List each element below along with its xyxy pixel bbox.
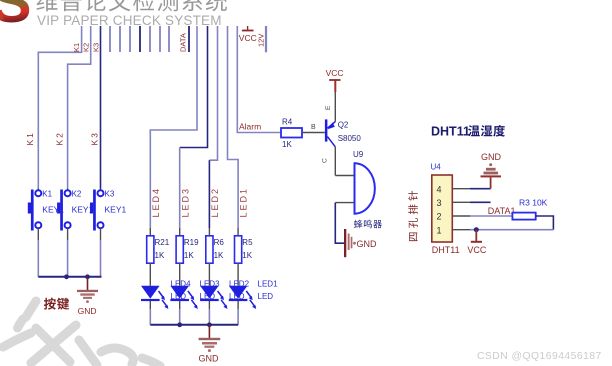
svg-text:1K: 1K [155, 251, 165, 260]
wire Alarm net to R4 [237, 26, 281, 133]
svg-text:K1: K1 [25, 131, 35, 145]
wire net K2 (stub + jog to button OK2) [68, 26, 91, 189]
svg-text:K3: K3 [105, 190, 115, 199]
svg-text:1K: 1K [282, 140, 292, 149]
svg-text:B: B [311, 124, 316, 131]
wire to R19 (LED3 net) [180, 26, 208, 148]
svg-text:GND: GND [78, 306, 97, 316]
button OK1 [28, 189, 65, 277]
svg-text:GND: GND [199, 354, 220, 364]
svg-text:GND: GND [481, 152, 502, 162]
svg-text:DATA1: DATA1 [488, 206, 516, 216]
button OK2 [57, 189, 94, 277]
resistor R21 [147, 228, 170, 286]
ground (LED bus) [199, 325, 221, 364]
wire to R5 (LED1 net) [228, 26, 239, 228]
wire net K3 (straight to button OK3) [100, 26, 102, 189]
junction (VCC tap / pin1) [474, 227, 479, 232]
LED D4 labels [171, 280, 192, 301]
svg-text:1K: 1K [184, 251, 194, 260]
svg-text:DHT11: DHT11 [431, 125, 470, 139]
svg-text:GND: GND [357, 239, 378, 249]
svg-text:1K: 1K [214, 251, 224, 260]
svg-text:2: 2 [437, 212, 442, 222]
LED D1 labels [258, 280, 279, 301]
svg-text:K2: K2 [82, 43, 91, 52]
LED D4 [141, 286, 168, 325]
svg-text:Alarm: Alarm [239, 122, 261, 132]
svg-text:E: E [325, 105, 332, 110]
label 按键 [44, 298, 69, 310]
wire R3 to pin1 net [536, 216, 554, 230]
svg-text:K2: K2 [72, 190, 82, 199]
wire LED bottom bus [150, 324, 238, 326]
transistor Q2 [325, 92, 361, 176]
LED D3 [170, 286, 197, 325]
svg-text:K3: K3 [92, 43, 101, 52]
buzzer U9 [335, 150, 382, 228]
svg-text:12V: 12V [257, 34, 266, 47]
pin 3 wire [452, 201, 470, 203]
wire to R21 (LED4 net) [150, 26, 197, 228]
svg-text:LED4: LED4 [151, 187, 161, 218]
svg-text:LED3: LED3 [180, 187, 190, 218]
ground (buzzer, rotated) [344, 229, 377, 257]
svg-text:3: 3 [437, 198, 442, 208]
svg-text:LED: LED [258, 292, 274, 301]
svg-text:LED1: LED1 [258, 280, 279, 289]
svg-text:VCC: VCC [467, 245, 487, 255]
svg-text:1K: 1K [242, 251, 252, 260]
svg-text:4: 4 [437, 184, 442, 194]
resistor R5 [235, 228, 254, 286]
svg-text:U9: U9 [353, 150, 364, 159]
power VCC (DHT11) [467, 230, 487, 255]
svg-text:KEY1: KEY1 [105, 205, 127, 215]
ground (DHT11, inverted) [481, 152, 502, 189]
wire buzzer to ground [335, 203, 344, 244]
svg-text:K1: K1 [42, 190, 52, 199]
junction (button OK2 / bus) [64, 274, 69, 279]
svg-text:U4: U4 [431, 163, 442, 172]
power VCC (transistor) [326, 68, 344, 92]
stub 12V [265, 26, 267, 52]
svg-text:K3: K3 [90, 131, 100, 145]
unused top stub (dark) [139, 26, 141, 52]
watermark chinese title [36, 0, 227, 11]
svg-text:VCC: VCC [239, 33, 257, 43]
button OK3 [90, 189, 127, 277]
svg-text:DATA: DATA [179, 33, 188, 52]
wire net K1 (stub + jog to button OK1) [38, 26, 81, 189]
LED D2 labels [229, 280, 250, 301]
svg-text:R4: R4 [282, 118, 293, 127]
watermark bottom-left strokes [3, 301, 160, 366]
svg-text:Q2: Q2 [338, 121, 349, 130]
svg-text:DHT11: DHT11 [432, 245, 460, 255]
LED D3 labels [200, 280, 221, 301]
svg-text:R3 10K: R3 10K [519, 198, 548, 208]
pin 2 wire (DATA) [452, 215, 470, 217]
resistor R4 [281, 118, 325, 150]
pin 1 wire (VCC net) [452, 229, 470, 231]
wire to R6 (LED2 net) [209, 26, 217, 160]
label DAT stub [188, 26, 190, 52]
svg-text:K1: K1 [72, 43, 81, 52]
svg-text:VCC: VCC [326, 68, 344, 78]
svg-text:LED1: LED1 [239, 187, 249, 218]
label 四孔排针 [408, 191, 418, 241]
svg-text:R5: R5 [242, 238, 253, 247]
svg-text:CSDN @QQ1694456187: CSDN @QQ1694456187 [477, 351, 602, 362]
svg-text:K2: K2 [55, 131, 65, 145]
svg-text:VIP PAPER CHECK SYSTEM: VIP PAPER CHECK SYSTEM [37, 13, 222, 28]
resistor R3 [512, 198, 547, 220]
junction (LED D3 / bus) [177, 322, 182, 327]
power symbol VCC (top row) [239, 26, 257, 43]
svg-text:R19: R19 [184, 238, 199, 247]
svg-text:LED2: LED2 [210, 187, 220, 218]
svg-text:C: C [322, 158, 329, 163]
svg-text:1: 1 [437, 225, 442, 235]
resistor R19 [176, 228, 199, 286]
junction (LED D2 / bus) [207, 322, 212, 327]
wire keys bottom bus [38, 276, 101, 278]
LED D2 [200, 286, 227, 325]
pin 4 wire to GND [452, 188, 470, 190]
svg-text:R21: R21 [155, 238, 170, 247]
ground (keys) [77, 277, 98, 316]
LED D1 [229, 286, 256, 325]
unused top stubs row [110, 26, 169, 52]
svg-text:S8050: S8050 [338, 134, 362, 143]
connector U4 body [432, 175, 453, 242]
svg-text:R6: R6 [214, 238, 225, 247]
resistor R6 [206, 228, 225, 286]
watermark logo S fragment [0, 0, 32, 35]
svg-text:S: S [0, 0, 32, 35]
junction (gnd tap / bus) [85, 274, 90, 279]
